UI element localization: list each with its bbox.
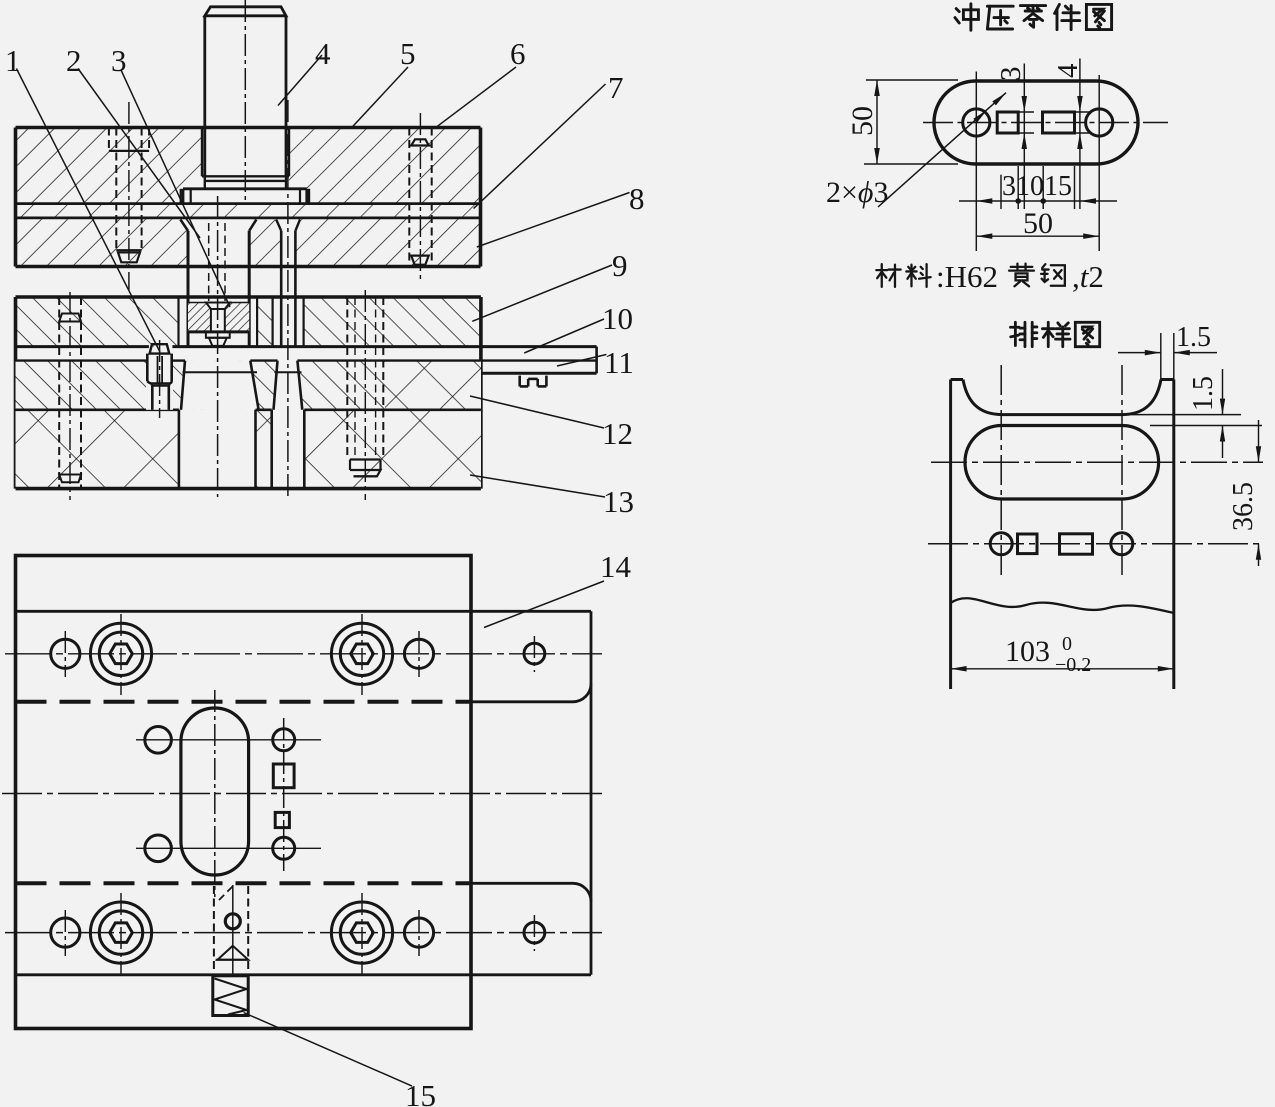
svg-text:3: 3 (995, 67, 1027, 82)
chain dims 3 10 15 (1000, 175, 1002, 209)
pilot hole upper-left (145, 727, 172, 754)
rect hole (1043, 112, 1075, 133)
stamped part obround outline (934, 81, 1138, 164)
stripper plate outline (16, 295, 481, 299)
svg-text:4: 4 (1052, 63, 1084, 78)
svg-text:5: 5 (400, 36, 416, 71)
bolt hole plate14 top (524, 643, 545, 664)
leader 5 (352, 67, 408, 127)
small punch head cavity (white) (274, 218, 302, 267)
hidden plate edges (heavy dashed) (16, 700, 472, 704)
die plate 12 (hatched) (16, 361, 482, 410)
svg-text:12: 12 (602, 416, 633, 451)
leader 12 (470, 396, 604, 428)
bottom plate bottom edge (16, 487, 481, 491)
lower die holder plate 14 outline (471, 610, 591, 613)
title: 排样图 (1010, 322, 1036, 346)
punch holder plate 8 (hatched) (16, 218, 481, 267)
bolt hole plate14 bottom (524, 922, 545, 943)
ejector insert inside punch (hatched cone) (188, 303, 211, 332)
spring hook under support (518, 376, 521, 387)
ejector pin flange and tip (206, 332, 230, 338)
svg-text:8: 8 (629, 181, 645, 216)
spring arrow (218, 946, 249, 960)
leader 14 (484, 581, 604, 628)
svg-text:50: 50 (1023, 207, 1053, 240)
strip left edge (949, 380, 952, 690)
svg-text::H62: :H62 (936, 259, 998, 294)
svg-text:1.5: 1.5 (1176, 322, 1211, 353)
strip right edge (1172, 380, 1175, 690)
pierce row centerline (928, 543, 1263, 545)
die fixing screw (hidden) lower right (346, 297, 348, 460)
material note: H62 brass t2 (876, 264, 900, 287)
dowel hole bottom-right (404, 918, 433, 947)
blanking punch 2 (obround punch) (180, 220, 188, 231)
extension line through left hole (975, 72, 977, 252)
svg-text:11: 11 (604, 345, 634, 380)
shank centerline (244, 0, 246, 205)
dim 36.5 (feed pitch) (1258, 420, 1260, 462)
part horizontal centerline (923, 122, 1168, 124)
spring housing 15 (213, 976, 248, 1016)
leader 1 (16, 69, 160, 353)
svg-text:2: 2 (66, 43, 82, 78)
die opening walls (181, 361, 185, 410)
leader 13 (470, 475, 605, 497)
pierce hole upper-right (273, 729, 295, 751)
plan inner plate edges (16, 610, 472, 613)
svg-text:50: 50 (846, 106, 879, 136)
stop pin slot (hidden) (213, 886, 215, 975)
leader 9 (472, 265, 612, 321)
dim 103 width (951, 668, 1174, 670)
dim 4 line with arrows (1079, 59, 1081, 210)
dowel pin (hidden) lower left (58, 297, 60, 488)
pierce hole lower-right (273, 837, 295, 859)
dowel hole top-right (404, 639, 433, 668)
pilot hole lower-left (145, 835, 172, 862)
punch fixing screw hole (hidden) (208, 223, 210, 301)
piercing punch 3 (small punch) (276, 220, 281, 231)
shank hole clearance (white) (202, 128, 289, 189)
bottom plate 13 (hatched) (16, 410, 482, 489)
dowel hole top-left (51, 639, 80, 668)
leader 8 (477, 193, 630, 248)
svg-text:36.5: 36.5 (1228, 482, 1259, 531)
svg-text:7: 7 (608, 70, 624, 105)
svg-text:1: 1 (5, 43, 21, 78)
svg-text:10: 10 (602, 301, 633, 336)
strip top edge with punched-out contour (951, 378, 963, 381)
stripper punch hole walls (177, 297, 179, 347)
dowel hole bottom-left (51, 918, 80, 947)
svg-text:31015: 31015 (1002, 171, 1072, 202)
strip break wavy line (951, 598, 1174, 613)
title: 冲压零件图 (955, 4, 978, 30)
stop pin circle (plan) (225, 914, 240, 929)
svg-text:0: 0 (1062, 633, 1072, 655)
punch bottom face (188, 330, 249, 333)
plan main horizontal centerline (2, 793, 606, 795)
dim 50 bottom (976, 235, 1099, 237)
punch centerline (217, 196, 219, 497)
station vertical centerline right (1121, 365, 1123, 577)
top hole row centerline (5, 653, 602, 655)
svg-text:,t2: ,t2 (1072, 259, 1104, 294)
rect die opening (plan) (273, 764, 294, 788)
shank hole walls (201, 128, 203, 177)
square die opening (plan) (275, 812, 289, 827)
shank flange pocket (white) (181, 189, 309, 204)
svg-text:9: 9 (612, 248, 628, 283)
hole left (phi 3) (963, 109, 990, 136)
leader 15 (244, 1013, 413, 1087)
plate 14 lower notch edge (471, 883, 591, 901)
square hole 3x3 (997, 112, 1018, 133)
dim 3 line with arrows (1023, 64, 1025, 210)
pierce square (1018, 534, 1038, 554)
leader 6 (436, 67, 516, 127)
die openings (white) (181, 361, 259, 410)
die shank 4 (205, 7, 286, 16)
plate joint line backing/holder (16, 216, 481, 219)
svg-text:6: 6 (510, 36, 526, 71)
upper assembly bottom edge (16, 265, 481, 269)
strip support bar 11 (481, 359, 597, 361)
die opening obround (plan) (181, 708, 249, 875)
hole right (phi 3) (1086, 109, 1113, 136)
leader 4 (278, 55, 322, 106)
svg-text:14: 14 (600, 549, 632, 584)
vertical dim 50 left (866, 79, 958, 81)
pierce hole right (1111, 533, 1133, 555)
station vertical centerline left (1000, 365, 1002, 577)
bottom hole row centerline (5, 932, 602, 934)
leader 2 (78, 69, 200, 239)
svg-text:1.5: 1.5 (1188, 376, 1219, 411)
plate 14 upper notch edge (471, 684, 591, 702)
extension line through right hole (1098, 75, 1100, 251)
small punch centerline (287, 100, 289, 497)
pierce rect (1060, 534, 1093, 554)
top plate outline (16, 126, 481, 130)
big punch head cavity (white) (180, 218, 256, 267)
dim 1.5 right (margin) (1122, 414, 1241, 416)
upper holes centerline (136, 739, 321, 741)
svg-text:15: 15 (405, 1078, 436, 1107)
stop pin 1 (146, 352, 173, 410)
upper die assembly: top plate 5 (hatched) (16, 128, 481, 204)
shank flange (183, 187, 307, 190)
svg-text:13: 13 (603, 484, 634, 519)
svg-text:2×ϕ3: 2×ϕ3 (826, 176, 888, 209)
cap screw top-left (90, 623, 151, 684)
stripper bolt (hidden) right side (408, 128, 410, 267)
shank step lines (202, 175, 289, 177)
cap screw bottom-right (331, 902, 392, 963)
die top face / strip bottom (16, 359, 148, 361)
svg-text:−0.2: −0.2 (1055, 654, 1091, 676)
die set plan outer rectangle (16, 556, 472, 1029)
dim 1.5 top (web) (1160, 333, 1162, 380)
svg-text:103: 103 (1005, 635, 1050, 668)
cap screw top-right (331, 623, 392, 684)
stripper plate 9 (hatched) (16, 297, 482, 347)
slug clearance holes (white) (179, 410, 256, 489)
backing plate 7 (hatched) (16, 204, 481, 218)
cap screw (hidden) left of shank (108, 128, 110, 151)
svg-text:3: 3 (111, 43, 127, 78)
strip obround centerline (931, 461, 1263, 463)
cap screw bottom-left (90, 902, 151, 963)
leader 11 (557, 355, 606, 367)
lower holes centerline (136, 847, 321, 849)
svg-text:4: 4 (315, 36, 331, 71)
flange pocket walls (180, 189, 182, 204)
leader 3 (121, 70, 230, 307)
blanked slug in die (183, 371, 258, 373)
plate joint line top/backing (16, 202, 481, 205)
die / bottom plate joint (16, 408, 179, 411)
next blank obround on strip (965, 426, 1159, 500)
clearance hole walls (178, 410, 181, 489)
leader 7 (474, 84, 606, 209)
leader 10 (524, 319, 604, 353)
strip sheet 10 top line (16, 345, 149, 348)
pierce station centerline column (283, 718, 285, 871)
pierce hole left (990, 533, 1012, 555)
